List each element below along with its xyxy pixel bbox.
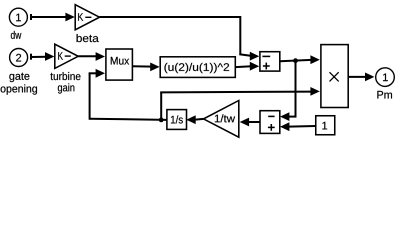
arrowhead into mux in1 [96,52,105,61]
sum1 minus sign [262,55,270,57]
wire mux out [132,65,152,67]
sum2 plus sign [268,126,275,128]
arrowhead into sum1 plus [250,62,259,71]
fcn block [160,57,235,78]
gain 1/tw (flipped) [204,101,239,138]
label turbine [50,72,80,80]
sum2 minus sign [268,115,274,117]
wire inport2 to turbine gain [32,56,47,58]
mux [106,49,132,80]
feedback down from junction [295,61,297,117]
arrowhead into product in1 [310,55,319,64]
label Pm [377,91,392,99]
text fcn text [164,63,229,73]
arrowhead into sum2 minus (pointing left) [280,112,289,121]
wire riser to product in2 [160,92,162,120]
junction 1/s out [159,118,164,123]
junction sum1 out [293,58,298,63]
sum1 plus sign [263,65,270,67]
gain turbine [55,44,78,68]
text 1 constant [322,122,327,130]
integrator 1/s (flipped) [167,110,187,130]
label dw [11,31,21,39]
label opening [1,84,37,94]
inport 1 [9,8,27,26]
wire into sum1 minus [239,54,250,56]
sum2 [260,111,280,134]
arrowhead into 1/s (pointing left) [186,115,195,124]
inport 2 [10,49,28,67]
K- dash turbine [65,55,71,57]
arrowhead into sum2 plus (pointing left) [280,122,289,131]
arrowhead into 1/tw (pointing left) [240,118,249,127]
wire turbine gain to mux [78,55,97,57]
label beta [77,34,99,42]
port tick inport2 [30,54,32,60]
text 2 [16,54,21,62]
wire up to mux in2 [89,73,91,119]
wire inport1 to beta [32,16,67,18]
arrowhead into fcn [150,63,159,72]
text 1 [16,14,21,22]
arrowhead into mux in2 [96,69,105,78]
wire fcn out [235,65,251,68]
constant 1 [316,116,335,135]
port tick inport1 [30,14,32,20]
arrowhead into product in2 [310,87,319,96]
wire beta down [239,16,241,54]
product [321,45,348,108]
arrowhead into turbine gain [45,52,54,61]
text K turbine [58,52,63,60]
arrowhead into beta [65,13,74,22]
label gain [58,83,75,93]
outport 1 [376,68,395,87]
wire product out [348,76,366,78]
text 1/s [171,115,183,123]
arrowhead into sum1 minus [250,52,259,61]
text Mux [111,57,129,65]
text K beta [78,13,83,21]
wire beta output [100,16,241,18]
wire 1/tw out [196,118,204,121]
wire 1/s out going left [90,119,167,120]
text 1 outport [383,74,388,82]
gain beta [75,5,99,30]
text 1/tw [215,114,235,122]
K- dash beta [85,16,91,18]
sum1 [260,52,280,71]
label gate [9,73,29,82]
wire sum1 out [280,60,312,61]
wire feedback into sum2 minus [289,116,297,118]
wire constant to sum2 plus [289,125,316,128]
wire sum2 out to 1/tw [249,121,260,123]
arrowhead into outport [365,73,374,82]
